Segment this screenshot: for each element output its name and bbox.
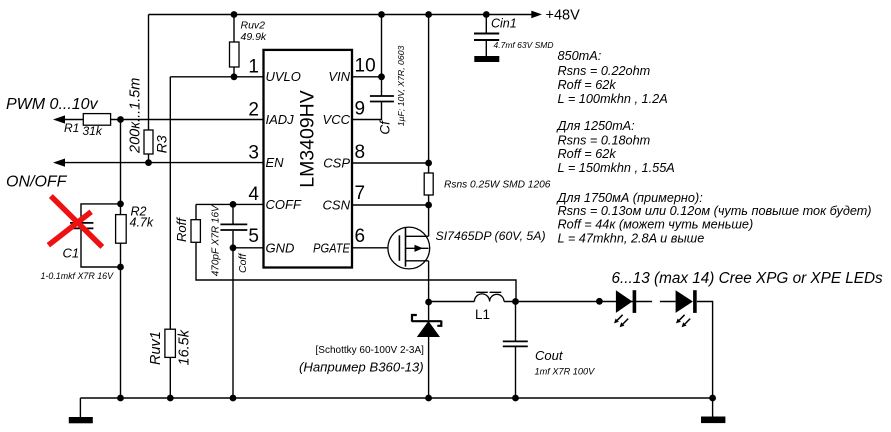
node ground rail LED <box>709 395 716 402</box>
value Ruv2 49.9k <box>241 31 267 43</box>
IC U1 LM3409HV body <box>264 50 353 268</box>
svg-text:CSP: CSP <box>323 155 350 170</box>
wire L1 to output node and LED string <box>504 301 676 303</box>
svg-text:Cin1: Cin1 <box>491 17 517 31</box>
svg-text:Roff = 44к (может чуть меньше): Roff = 44к (может чуть меньше) <box>558 218 754 232</box>
wire COFF pin 4 <box>196 203 264 205</box>
wire CSN pin 7 <box>352 204 429 206</box>
node rail-Rsns <box>425 11 432 18</box>
LED D3 <box>676 290 695 327</box>
svg-text:8: 8 <box>355 142 366 163</box>
wire MOSFET drain to switch node <box>428 261 430 302</box>
svg-text:COFF: COFF <box>266 197 302 212</box>
svg-text:4: 4 <box>248 184 259 205</box>
label LED string <box>612 270 884 287</box>
resistor R2 <box>116 215 127 244</box>
svg-text:Cout: Cout <box>535 348 564 363</box>
svg-text:Rsns = 0.13ом или 0.12ом (чуть: Rsns = 0.13ом или 0.12ом (чуть повыше то… <box>558 204 872 218</box>
value Cin1 <box>494 40 554 50</box>
svg-text:6...13 (max 14) Cree XPG or XP: 6...13 (max 14) Cree XPG or XPE LEDs <box>612 270 884 287</box>
wire left ground stub <box>79 398 81 417</box>
svg-text:850mA:: 850mA: <box>558 49 602 63</box>
capacitor Cout plates <box>503 341 528 346</box>
wire bottom ground rail <box>80 397 712 399</box>
wire R3 branch vertical from rail to EN <box>148 15 150 163</box>
svg-text:L = 150mkhn , 1.55A: L = 150mkhn , 1.55A <box>558 161 675 175</box>
svg-text:PGATE: PGATE <box>313 240 350 255</box>
node VIN-Cf <box>378 73 385 80</box>
wire UVLO pin 1 <box>170 76 263 78</box>
svg-text:Roff = 62k: Roff = 62k <box>558 147 617 161</box>
node ground rail Ruv1 <box>167 395 174 402</box>
node ground rail Cout <box>512 395 519 402</box>
svg-text:+48V: +48V <box>546 8 581 24</box>
label C1 <box>63 246 80 261</box>
label R2 <box>131 205 147 219</box>
svg-text:200к...1.5m: 200к...1.5m <box>127 78 143 154</box>
wire PGATE pin 6 to gate <box>352 247 399 249</box>
svg-text:4.7k: 4.7k <box>130 216 154 230</box>
node GND-Coff <box>230 244 237 251</box>
label Ruv2 <box>241 20 266 32</box>
node rail-Ruv2 <box>231 11 238 18</box>
svg-text:Rsns = 0.22ohm: Rsns = 0.22ohm <box>558 64 651 78</box>
annotation 1250mA block <box>556 119 675 175</box>
wire Cf branch and VCC pin 9 <box>352 77 382 120</box>
ground right <box>701 417 725 424</box>
node dots <box>117 11 716 401</box>
svg-text:Для 1750мА (примерно):: Для 1750мА (примерно): <box>556 191 704 205</box>
svg-text:L = 47mkhn, 2.8A и выше: L = 47mkhn, 2.8A и выше <box>558 232 705 246</box>
label ON/OFF input <box>6 174 68 191</box>
net +48V <box>546 8 581 24</box>
wire VIN branch vertical <box>381 15 383 77</box>
label Roff rotated <box>174 217 189 242</box>
wire Cin1 branch vertical <box>485 15 487 57</box>
resistor R3 <box>144 130 153 154</box>
value Cf rotated <box>396 45 406 126</box>
wire GND pin 5 <box>233 247 264 249</box>
svg-text:10: 10 <box>355 56 376 77</box>
svg-text:LM3409HV: LM3409HV <box>297 90 319 188</box>
node L1 output <box>512 298 519 305</box>
ground Cin1 <box>474 56 499 62</box>
value Ruv1 rotated <box>177 329 193 365</box>
capacitor Cin1 plates <box>474 34 499 41</box>
svg-text:470pF X7R 16V: 470pF X7R 16V <box>210 204 221 276</box>
node R2-C1 top <box>117 201 124 208</box>
svg-text:ON/OFF: ON/OFF <box>6 174 68 191</box>
node CSP <box>425 160 432 167</box>
wire top +48V rail <box>149 14 532 16</box>
svg-text:L1: L1 <box>475 307 490 322</box>
label SI7465DP <box>436 229 546 243</box>
annotation 850mA block <box>558 49 668 106</box>
label Schottky <box>316 345 425 356</box>
svg-text:Для 1250mA:: Для 1250mA: <box>556 119 636 133</box>
node CSN <box>425 202 432 209</box>
capacitor Coff plates <box>220 224 247 230</box>
arrow +48V supply <box>531 11 542 19</box>
arrow PWM input <box>53 115 65 123</box>
resistor Ruv2 <box>230 42 240 67</box>
pin numbers left <box>248 57 259 248</box>
capacitor C1 plates <box>70 223 93 229</box>
label Coff rotated <box>237 253 249 273</box>
svg-text:1mf X7R 100V: 1mf X7R 100V <box>535 367 596 377</box>
wire IADJ pin 2 from PWM input <box>57 119 264 121</box>
svg-text:UVLO: UVLO <box>266 69 301 84</box>
value Cout <box>535 367 596 377</box>
pin names right <box>313 69 351 255</box>
node R2-C1 bottom <box>117 264 124 271</box>
svg-text:EN: EN <box>266 155 285 170</box>
node COFF <box>230 201 237 208</box>
inductor L1 <box>474 292 504 301</box>
node switch <box>425 299 432 306</box>
label R1 <box>64 121 79 135</box>
wire right ground stub <box>712 398 714 417</box>
svg-text:Roff: Roff <box>174 217 189 242</box>
red X over C1 <box>51 198 101 245</box>
arrow ON/OFF input <box>53 159 65 167</box>
svg-text:31k: 31k <box>83 124 103 138</box>
capacitor Cf plates <box>370 96 394 102</box>
node ground rail Coff <box>230 395 237 402</box>
wire C1 parallel loop <box>81 204 121 267</box>
svg-text:Coff: Coff <box>237 253 249 273</box>
ground left <box>69 417 93 423</box>
node IADJ-R1 <box>117 116 124 123</box>
wire LED string end down to ground <box>697 302 713 399</box>
svg-text:1: 1 <box>248 57 259 78</box>
wire EN pin 3 from ON/OFF input <box>57 162 264 164</box>
wire Rsns branch vertical from rail to MOSFET source <box>428 15 430 237</box>
label Cout <box>535 348 564 363</box>
label R3 value rotated <box>127 78 143 154</box>
value R1 31k <box>83 124 103 138</box>
label Cin1 <box>491 17 517 31</box>
svg-text:VCC: VCC <box>323 112 351 127</box>
svg-text:3: 3 <box>248 143 259 164</box>
svg-text:VIN: VIN <box>328 69 350 84</box>
wire Roff branch down and across to output node <box>196 204 516 301</box>
svg-text:R1: R1 <box>64 121 79 135</box>
svg-text:16.5k: 16.5k <box>177 329 193 365</box>
LED D2 <box>614 290 634 327</box>
svg-text:C1: C1 <box>63 246 80 261</box>
transistor Q1 SI7465DP PMOS <box>388 227 430 269</box>
wire UVLO divider vertical to Ruv1 <box>169 77 171 398</box>
resistor Roff <box>191 220 200 243</box>
svg-text:Rsns = 0.18ohm: Rsns = 0.18ohm <box>558 134 651 148</box>
svg-text:IADJ: IADJ <box>266 112 295 127</box>
label B360-13 <box>299 360 424 375</box>
wire switch node to L1 <box>429 301 475 303</box>
svg-text:Rsns 0.25W SMD 1206: Rsns 0.25W SMD 1206 <box>444 180 551 191</box>
svg-text:Cf: Cf <box>378 120 393 135</box>
annotation 1750mA block <box>556 191 872 246</box>
IC name LM3409HV rotated <box>297 90 319 188</box>
svg-text:L = 100mkhn , 1.2A: L = 100mkhn , 1.2A <box>558 92 668 106</box>
value Coff rotated <box>210 204 221 276</box>
svg-text:GND: GND <box>266 240 295 255</box>
node rail-VIN <box>378 11 385 18</box>
node rail-Cin1 <box>483 11 490 18</box>
svg-text:R3: R3 <box>153 135 169 153</box>
wire Cout branch vertical <box>515 302 517 399</box>
diode D1 Schottky <box>412 315 441 337</box>
label Cf rotated <box>378 120 393 135</box>
svg-text:PWM 0...10v: PWM 0...10v <box>6 96 99 113</box>
wire R1 junction down through R2 to ground <box>120 120 122 399</box>
node LED string <box>596 298 603 305</box>
svg-text:CSN: CSN <box>323 198 351 213</box>
label Rsns value <box>444 180 551 191</box>
svg-text:5: 5 <box>248 226 259 247</box>
svg-text:9: 9 <box>355 99 366 120</box>
svg-text:7: 7 <box>355 183 366 204</box>
wire Ruv2 branch vertical <box>233 15 235 77</box>
node ground rail R1 <box>117 395 124 402</box>
value C1 <box>41 271 115 281</box>
pin names left <box>266 69 302 255</box>
svg-text:2: 2 <box>248 100 259 121</box>
wire Coff branch vertical to ground <box>232 204 234 398</box>
wire VIN pin 10 <box>352 76 382 78</box>
svg-text:[Schottky 60-100V 2-3A]: [Schottky 60-100V 2-3A] <box>316 345 425 356</box>
svg-text:49.9k: 49.9k <box>241 31 267 43</box>
svg-text:4.7mf 63V SMD: 4.7mf 63V SMD <box>494 40 554 50</box>
resistor Ruv1 <box>165 329 176 357</box>
svg-text:Ruv2: Ruv2 <box>241 20 266 32</box>
svg-text:Ruv1: Ruv1 <box>148 331 164 365</box>
svg-text:(Например В360-13): (Например В360-13) <box>299 360 424 375</box>
node EN-R3 <box>145 159 152 166</box>
label L1 <box>475 307 490 322</box>
svg-text:1-0.1mkf X7R 16V: 1-0.1mkf X7R 16V <box>41 271 115 281</box>
label R3 rotated <box>153 135 169 153</box>
label PWM input <box>6 96 99 113</box>
svg-text:SI7465DP (60V, 5A): SI7465DP (60V, 5A) <box>436 229 546 243</box>
node UVLO <box>231 73 238 80</box>
svg-text:1µF; 10V, X7R, 0603: 1µF; 10V, X7R, 0603 <box>396 45 406 126</box>
label Ruv1 rotated <box>148 331 164 365</box>
node ground rail diode <box>425 395 432 402</box>
pin numbers right <box>355 56 376 248</box>
svg-text:6: 6 <box>355 226 366 247</box>
resistor Rsns <box>424 173 433 195</box>
svg-text:Roff = 62k: Roff = 62k <box>558 78 617 92</box>
resistor R1 <box>83 114 110 126</box>
value R2 4.7k <box>130 216 154 230</box>
wire diode branch vertical <box>428 302 430 398</box>
wire CSP pin 8 <box>352 162 429 164</box>
